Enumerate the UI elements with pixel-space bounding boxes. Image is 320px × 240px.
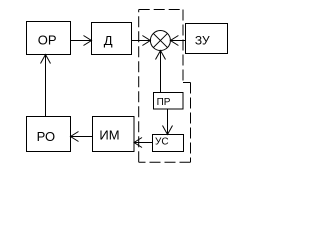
svg-text:РО: РО <box>37 129 56 144</box>
svg-text:Д: Д <box>104 33 113 48</box>
svg-text:ЗУ: ЗУ <box>195 34 210 48</box>
svg-text:ПР: ПР <box>157 97 171 108</box>
svg-text:ОР: ОР <box>38 33 57 48</box>
svg-text:ИМ: ИМ <box>99 128 119 143</box>
svg-text:УС: УС <box>155 137 169 148</box>
